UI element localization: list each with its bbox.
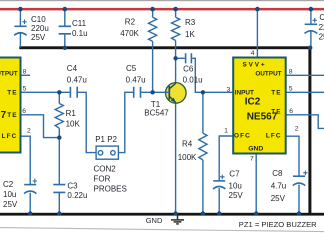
bottom grey border line: [0, 228, 324, 232]
svg-text:R1: R1: [66, 109, 77, 118]
node dot emitter ground: [173, 211, 177, 215]
svg-text:TE: TE: [7, 89, 17, 96]
svg-text:BC547: BC547: [144, 109, 169, 118]
svg-text:INPUT: INPUT: [235, 89, 254, 96]
node dot C2 ground: [28, 211, 32, 215]
svg-text:5: 5: [23, 85, 27, 92]
polarity + of C2: [33, 179, 37, 184]
wire T1 collector: [175, 58, 177, 83]
svg-text:C8: C8: [272, 169, 283, 178]
wire IC2 pin6 out: [286, 115, 324, 129]
wire node collector to C6: [176, 57, 185, 59]
svg-text:470K: 470K: [120, 29, 139, 38]
wire C5 to T1 base: [141, 91, 169, 93]
capacitor C7 plates: [213, 180, 225, 182]
capacitor C10 wires: [19, 9, 21, 47]
svg-text:0.22u: 0.22u: [67, 191, 87, 200]
node dot C9 black rail corner: [308, 46, 312, 50]
wire C4 to P1 drop: [78, 92, 96, 152]
wire C6 right elbow to input node: [192, 58, 233, 92]
svg-text:R4: R4: [182, 140, 193, 149]
svg-text:C9: C9: [319, 13, 324, 22]
wire IC1 pin6 to node B: [21, 115, 60, 138]
ground symbol: [171, 215, 184, 224]
wire IC2 pin5 out: [286, 91, 324, 93]
IC1 NE567 (cut off at left edge): [0, 58, 21, 153]
svg-text:SVV+: SVV+: [242, 61, 266, 68]
svg-text:C5: C5: [126, 64, 137, 73]
svg-text:C2: C2: [3, 180, 14, 189]
node dot node B: [57, 135, 61, 139]
svg-text:8: 8: [23, 69, 27, 76]
svg-text:R3: R3: [185, 18, 196, 27]
svg-text:1K: 1K: [185, 30, 195, 39]
node dot C10 rail: [18, 7, 23, 12]
svg-text:10u: 10u: [229, 182, 242, 191]
capacitor C10 plates: [14, 25, 26, 27]
node dot C9 rail: [309, 7, 314, 12]
node dot C11 rail: [63, 7, 68, 12]
wire IC1 pin8 stub: [21, 74, 31, 76]
svg-text:25V: 25V: [271, 194, 286, 203]
connector CON2: [96, 146, 118, 159]
capacitor C7 bottom wire: [218, 188, 220, 214]
polarity + of C8: [303, 171, 307, 176]
svg-text:2: 2: [27, 127, 31, 134]
right black vertical wire: [308, 46, 311, 215]
svg-text:25V: 25V: [229, 191, 244, 200]
wire IC1 pin5 to node A: [21, 91, 60, 93]
node dot R3 rail: [173, 7, 178, 12]
svg-text:C3: C3: [67, 181, 78, 190]
svg-text:3: 3: [227, 86, 231, 93]
capacitor C6 plates: [186, 53, 192, 63]
capacitor C4 plates: [70, 87, 77, 98]
node dot IC2 pin7 ground: [254, 211, 258, 215]
polarity + of C10: [22, 20, 26, 25]
wire T1 emitter to ground rail: [175, 103, 177, 214]
svg-text:PROBES: PROBES: [94, 184, 127, 193]
svg-text:10K: 10K: [66, 120, 81, 129]
wire node A to C4: [59, 91, 69, 93]
svg-text:0.1u: 0.1u: [72, 29, 88, 38]
resistor R3 leads: [175, 9, 177, 58]
svg-text:PZ1 = PIEZO BUZZER: PZ1 = PIEZO BUZZER: [239, 220, 317, 229]
capacitor C8 bottom wire: [298, 185, 300, 214]
capacitor C9 wires: [310, 9, 312, 47]
wire IC2 pin1 to C7: [219, 136, 233, 181]
capacitor C3 wires: [58, 138, 60, 214]
resistor R4 zigzag: [199, 133, 207, 160]
svg-text:P1 P2: P1 P2: [95, 135, 117, 144]
capacitor C2 plates: [24, 184, 36, 186]
svg-text:C4: C4: [67, 64, 78, 73]
svg-text:4: 4: [251, 50, 255, 57]
svg-text:25V: 25V: [319, 33, 324, 42]
node dot R4 ground: [201, 211, 205, 215]
svg-text:2: 2: [295, 125, 299, 132]
svg-text:25V: 25V: [31, 33, 46, 42]
svg-text:LFC: LFC: [2, 133, 18, 140]
node dot C11 black rail: [63, 46, 67, 50]
wire IC2 pin7 to ground: [255, 154, 257, 214]
svg-text:R2: R2: [125, 17, 136, 26]
IC2 NE567 body: [233, 58, 286, 154]
capacitor C11 wires: [64, 9, 66, 48]
svg-text:5: 5: [289, 85, 293, 92]
svg-text:220u: 220u: [31, 24, 49, 33]
svg-text:10u: 10u: [3, 190, 16, 199]
svg-text:6: 6: [289, 108, 293, 115]
transistor Q1 body: [164, 83, 186, 104]
svg-text:6: 6: [22, 108, 26, 115]
wire IC1 pin2 to C2: [21, 136, 31, 184]
capacitor C2 bottom wire: [29, 193, 31, 214]
node dot input junction: [201, 90, 205, 94]
node dot IC2 pin4 rail: [255, 7, 260, 12]
top grey border line: [0, 0, 324, 1]
svg-text:25V: 25V: [3, 200, 18, 209]
wire IC2 pin2 to C8: [286, 136, 299, 176]
capacitor C8 plates: [293, 175, 305, 177]
top black rail: [19, 46, 311, 49]
node dot C7 ground: [217, 211, 221, 215]
bottom black ground rail: [0, 213, 324, 216]
wire IC2 pin8 out: [286, 74, 324, 76]
svg-text:7: 7: [1, 110, 7, 121]
svg-text:100K: 100K: [178, 153, 197, 162]
node dot collector junction: [173, 56, 177, 60]
svg-text:GND: GND: [146, 216, 163, 225]
svg-text:0.47u: 0.47u: [126, 75, 146, 84]
svg-text:0.47u: 0.47u: [67, 75, 87, 84]
resistor R3 zigzag: [172, 17, 180, 40]
capacitor C5 plates: [134, 87, 141, 98]
svg-text:TE: TE: [271, 89, 281, 96]
polarity + of C7: [220, 175, 224, 180]
V+ red rail: [0, 8, 324, 10]
svg-text:TE: TE: [7, 112, 17, 119]
wire P2 riser to C5: [118, 92, 133, 152]
svg-text:C7: C7: [229, 169, 240, 178]
svg-text:IC2: IC2: [245, 97, 261, 108]
svg-text:4.7u: 4.7u: [271, 182, 287, 191]
svg-text:1: 1: [224, 128, 228, 135]
capacitor C11 plates: [59, 26, 71, 34]
svg-text:220u: 220u: [319, 23, 324, 32]
resistor R1 leads: [58, 92, 60, 137]
node dot node A: [57, 90, 61, 94]
resistor R1 zigzag: [55, 104, 63, 129]
svg-text:C10: C10: [31, 15, 46, 24]
node dot base junction: [150, 90, 154, 94]
svg-text:LFC: LFC: [266, 132, 282, 139]
wire IC2 pin4 to V+ rail: [256, 9, 258, 58]
svg-text:OUTPUT: OUTPUT: [255, 71, 281, 78]
svg-text:8: 8: [289, 68, 293, 75]
svg-text:FOR: FOR: [94, 175, 111, 184]
node dot R2 rail: [150, 7, 155, 12]
resistor R2 zigzag: [149, 17, 157, 41]
svg-text:0.01u: 0.01u: [183, 76, 203, 85]
svg-text:7: 7: [250, 155, 254, 162]
node dot C3 ground: [57, 211, 61, 215]
resistor R4 leads: [202, 92, 204, 213]
node dot C8 ground: [297, 211, 301, 215]
svg-text:OFC: OFC: [234, 132, 251, 139]
svg-text:OUTPUT: OUTPUT: [0, 71, 18, 78]
svg-text:C11: C11: [72, 19, 87, 28]
svg-text:CON2: CON2: [94, 165, 117, 174]
svg-text:C6: C6: [183, 65, 194, 74]
capacitor C9 plates: [305, 23, 317, 25]
svg-text:GND: GND: [248, 146, 263, 153]
capacitor C3 plates: [53, 185, 65, 193]
resistor R2 leads: [152, 9, 154, 92]
polarity + of C9: [313, 18, 317, 23]
svg-text:NE567: NE567: [247, 112, 278, 123]
